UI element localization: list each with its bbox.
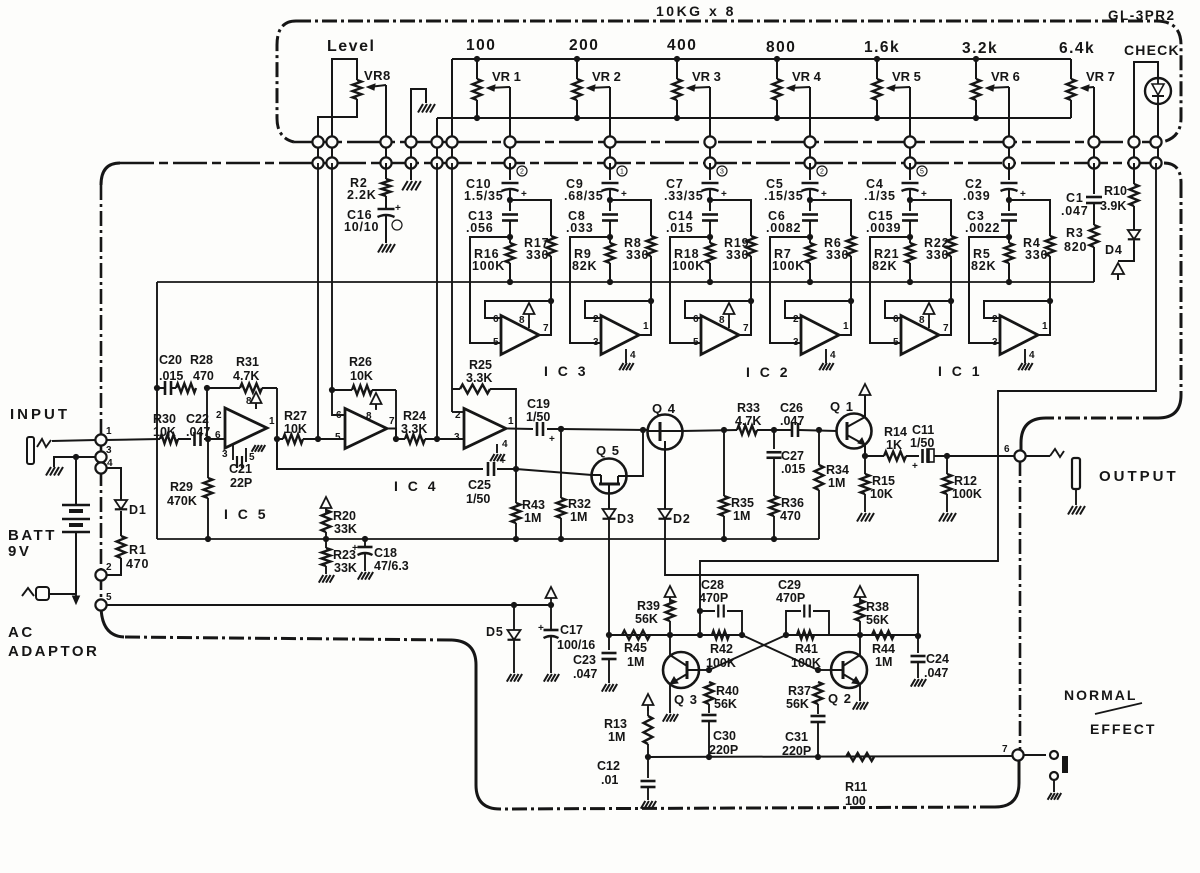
svg-text:Q 4: Q 4 [652,401,676,416]
svg-text:D2: D2 [673,512,691,526]
junction Q5 drain tap [640,427,646,433]
diode D3 [608,493,610,509]
resistor R23 [325,539,327,548]
svg-text:1: 1 [106,426,112,437]
node pin 3 [95,451,106,462]
wire op-amp output band 2 [639,301,651,335]
wire bus to band 1 column [509,163,511,180]
svg-text:820: 820 [1064,240,1087,254]
svg-text:VR 2: VR 2 [592,69,621,84]
junction R5 to rail [1006,279,1012,285]
svg-text:82K: 82K [971,259,996,273]
wire bus to band 3 column [709,163,711,180]
Q1 collector to V+ arrow [864,395,866,417]
junction film cap node band 1 [507,234,513,240]
main signal line [106,439,160,440]
svg-text:100: 100 [466,37,496,54]
wire op-amp output band 1 [539,301,551,335]
svg-text:8: 8 [519,315,525,326]
svg-text:+: + [352,543,358,554]
transistor Q4 (FET) [648,415,683,450]
svg-text:.015: .015 [781,462,805,476]
resistor R34 [818,430,820,465]
wire left input loop band 4 [770,237,810,343]
node pin 1 [95,434,106,445]
junction film cap node band 3 [707,234,713,240]
svg-text:R42: R42 [710,642,733,656]
resistor R3 [1093,203,1095,225]
svg-text:4.7K: 4.7K [735,414,761,428]
svg-text:1K: 1K [886,438,902,452]
op-amp band 2 [601,316,639,355]
wire VR6 top terminal [975,59,977,79]
junction R12 node [944,453,950,459]
svg-text:D1: D1 [129,503,147,517]
svg-text:6: 6 [215,430,221,441]
svg-text:8: 8 [719,315,725,326]
resistor R7 [809,237,811,243]
svg-text:5: 5 [693,337,699,348]
junction R16 to rail [507,279,513,285]
svg-text:1M: 1M [733,509,750,523]
junction R8 feedback node [648,298,654,304]
svg-text:330: 330 [826,248,849,262]
wire feedback box band 1 [485,301,551,318]
svg-text:R39: R39 [637,599,660,613]
svg-text:R37: R37 [788,684,811,698]
bus line 2 (lower connector rail) [120,162,1164,165]
svg-text:+: + [521,189,527,200]
wire VR1 wiper to bus [509,87,511,163]
pot top rail [452,58,1071,60]
transistor Q2 (NPN) [831,652,867,688]
resistor R10 [1133,163,1135,184]
svg-text:Q 1: Q 1 [830,399,854,414]
capacitor C1 [1086,196,1102,199]
svg-text:AC: AC [8,624,35,641]
divider line NORMAL EFFECT [1095,703,1142,714]
op-amp pin 4 ground stub [825,349,827,363]
wire C25 node to Q5 [516,469,592,475]
op-amp band 3 [701,316,739,355]
svg-text:3: 3 [720,169,724,176]
svg-text:D3: D3 [617,512,635,526]
svg-text:Q 2: Q 2 [828,691,852,706]
svg-text:R41: R41 [795,642,818,656]
junction VR1 bottom [474,115,480,121]
svg-text:R36: R36 [781,496,804,510]
resistor R2 [385,163,387,179]
wire left input loop band 5 [870,237,910,343]
svg-text:+: + [621,189,627,200]
wire VR2 top terminal [576,59,578,79]
capacitor C31 [811,715,826,718]
resistor R38 with V+ arrow [855,586,866,597]
svg-text:+: + [549,434,555,445]
svg-text:GL-3PR2: GL-3PR2 [1108,8,1176,23]
svg-text:C24: C24 [926,652,949,666]
svg-text:C20: C20 [159,353,182,367]
svg-text:C25: C25 [468,478,491,492]
svg-text:330: 330 [926,248,949,262]
supply line from node 5 [106,604,551,606]
capacitor C3 [1001,213,1017,216]
resistor R18 [709,237,711,243]
resistor R41 [797,631,814,639]
capacitor C26 [791,423,794,437]
svg-text:10K: 10K [350,369,373,383]
junction VR2 bottom [574,115,580,121]
IC5 feedback network C20 R28 R31 [156,282,158,539]
svg-text:2: 2 [793,314,799,325]
capacitor C21 compensation [232,444,234,460]
footswitch contacts [1023,754,1046,756]
svg-text:3: 3 [793,337,799,348]
wire feedback box band 2 [585,301,651,318]
svg-text:1: 1 [508,416,514,427]
border corner right to horizontal [1158,395,1181,418]
curve node5 to bottom border [101,605,124,637]
junction R38 Q2 collector [857,632,863,638]
wire VR2 bottom terminal [576,100,578,118]
svg-text:R1: R1 [129,543,147,557]
Q2 emitter ground [859,684,861,701]
svg-text:+: + [538,623,544,634]
wire bus to band 5 column [909,163,911,180]
wire feedback to input node [206,388,208,439]
wire feedback box band 3 [685,301,751,318]
svg-text:.039: .039 [963,189,991,203]
junction VR6 bottom [973,115,979,121]
wire left input loop band 3 [670,237,710,343]
junction VR2 top [574,56,580,62]
junction IC5 input [205,436,211,442]
junction R42 right [739,632,745,638]
wire bus to band 6 column [1008,163,1010,180]
svg-text:R20: R20 [333,509,356,523]
svg-text:C31: C31 [785,730,808,744]
wire VR5 top terminal [876,59,878,79]
wire branch to R6 [810,200,851,236]
wire R1 to node 2 [106,558,121,575]
border below node 7 curving left [995,760,1019,807]
svg-text:1.6k: 1.6k [864,39,900,56]
svg-text:1M: 1M [608,730,625,744]
wire left input loop band 6 [969,237,1009,343]
wire to node 6 [947,455,1015,457]
svg-text:10K: 10K [284,422,307,436]
resistor R16 [509,237,511,243]
capacitor C19 [536,422,539,436]
border from AC adaptor line [124,637,452,640]
svg-text:R28: R28 [190,353,213,367]
wire VR5 bottom terminal [876,100,878,118]
junction VR4 bottom [774,115,780,121]
svg-text:VR 7: VR 7 [1086,69,1115,84]
wire R3 to rail [1093,247,1095,282]
svg-text:33K: 33K [334,522,357,536]
svg-text:4: 4 [1029,350,1035,361]
svg-text:470: 470 [126,557,149,571]
wire left input loop band 1 [470,237,510,343]
svg-text:C26: C26 [780,401,803,415]
resistor R4 [1046,236,1055,256]
diode D5 [513,605,515,630]
ground stub below bus [410,163,412,180]
junction band 6 cap node [1006,197,1012,203]
svg-text:800: 800 [766,39,796,56]
svg-text:C18: C18 [374,546,397,560]
junction Q1 base node [816,427,822,433]
border curve down to node 6 [1021,418,1046,451]
capacitor C23 [608,635,610,650]
svg-text:.01: .01 [601,773,618,787]
junction Q3 base R40 [706,667,712,673]
svg-text:10K: 10K [870,487,893,501]
transistor Q1 (NPN) [837,414,872,449]
wire Q5 to main line [626,430,643,476]
wire VR6 bottom terminal [975,100,977,118]
wire VR3 top terminal [676,59,678,79]
wire node 3 to sleeve ground [54,457,96,467]
svg-text:3.3K: 3.3K [466,371,492,385]
capacitor C22 [178,438,191,440]
wire VR3 wiper to bus [709,87,711,163]
node pin 2 [95,569,106,580]
svg-text:.015: .015 [666,221,694,235]
AC plug symbol [36,587,49,600]
svg-text:220P: 220P [709,743,738,757]
svg-text:3: 3 [222,449,228,460]
resistor R14 [865,455,884,457]
svg-text:2.2K: 2.2K [347,188,377,202]
svg-text:3.3K: 3.3K [401,422,427,436]
junction band 5 cap node [907,197,913,203]
wire battery minus down [75,532,77,594]
svg-text:.68/35: .68/35 [564,189,604,203]
wire Q4 to R33 [682,430,737,431]
svg-text:+: + [395,203,401,214]
junction band 2 cap node [607,197,613,203]
svg-text:+: + [721,189,727,200]
svg-text:470P: 470P [699,591,728,605]
svg-text:8: 8 [366,411,372,422]
wire feedback box band 5 [885,301,951,318]
wire bus to band 4 column [809,163,811,180]
wire C16 to ground [385,216,387,243]
junction film cap node band 5 [907,234,913,240]
svg-text:1: 1 [620,169,624,176]
svg-text:C29: C29 [778,578,801,592]
svg-text:I C 5: I C 5 [224,506,269,522]
svg-text:R38: R38 [866,600,889,614]
wire VR4 wiper to bus [809,87,811,163]
svg-text:82K: 82K [872,259,897,273]
right end curve of bus2 into right board border [1164,163,1181,183]
resistor R30 [160,435,178,444]
svg-text:1M: 1M [627,655,644,669]
svg-text:.056: .056 [466,221,494,235]
Q1 emitter node [864,445,866,456]
resistor R6 [847,236,856,256]
svg-text:.033: .033 [566,221,594,235]
wire top rail drop to bus [451,59,453,163]
svg-text:6: 6 [493,314,499,325]
svg-text:7: 7 [543,323,549,334]
potentiometer VR3 [673,79,682,100]
battery arrow to node 5 [75,585,77,599]
svg-text:1.5/35: 1.5/35 [464,189,504,203]
svg-text:C27: C27 [781,449,804,463]
junction D5 [511,602,517,608]
svg-text:INPUT: INPUT [10,406,70,423]
wire op-amp output band 5 [939,301,951,335]
pot bottom rail [437,117,1071,119]
transistor Q3 (NPN) [663,652,699,688]
wire op-amp output band 6 [1038,301,1050,335]
wire branch to R17 [510,200,551,236]
junction VR3 bottom [674,115,680,121]
svg-text:5: 5 [893,337,899,348]
resistor R15 [864,456,866,474]
svg-text:4: 4 [830,350,836,361]
capacitor C30 [702,714,717,717]
wire IC5out node down to C25 line [277,439,483,469]
VR3 wiper arrow [689,87,710,88]
wire bus to band 2 column [609,163,611,180]
svg-text:1M: 1M [570,510,587,524]
potentiometer VR5 [873,79,882,100]
connector pins on bus lines [312,136,323,147]
potentiometer VR2 [573,79,582,100]
svg-text:1: 1 [843,321,849,332]
svg-text:C30: C30 [713,729,736,743]
wire LED column down to flip-flop [700,163,1156,611]
svg-text:6: 6 [693,314,699,325]
junction IC5 output [274,436,280,442]
resistor R24 [396,438,405,440]
svg-text:R15: R15 [872,474,895,488]
svg-text:22P: 22P [230,476,252,490]
svg-text:56K: 56K [866,613,889,627]
svg-text:10KG x 8: 10KG x 8 [656,3,736,19]
resistor R19 [747,236,756,256]
svg-text:C28: C28 [701,578,724,592]
svg-text:4: 4 [502,439,508,450]
junction film cap node band 2 [607,234,613,240]
svg-text:6.4k: 6.4k [1059,40,1095,57]
svg-text:2: 2 [992,314,998,325]
wire VR7 bottom terminal [1070,100,1072,118]
bottom line to node 7 [648,756,1013,757]
wire pin2 from R25 line [451,389,453,412]
svg-text:EFFECT: EFFECT [1090,721,1156,737]
capacitor C8 [602,213,618,216]
wire LED cathode down to bus [1157,104,1159,163]
svg-text:R11: R11 [845,780,867,794]
potentiometer VR4 [773,79,782,100]
capacitor C5 (electrolytic) [802,182,819,185]
wire op-amp output band 3 [739,301,751,335]
bias rail horizontal [157,538,819,540]
junction D3 column [606,632,612,638]
resistor R43 [515,469,517,503]
svg-text:.047: .047 [1061,204,1089,218]
svg-text:VR 6: VR 6 [991,69,1020,84]
svg-text:R13: R13 [604,717,627,731]
wire D4 to supply arrow [1118,241,1134,262]
main board left border with connector pins [100,185,103,605]
junction R6 feedback node [848,298,854,304]
svg-text:56K: 56K [635,612,658,626]
junction VR5 bottom [874,115,880,121]
svg-text:R24: R24 [403,409,426,423]
supply arrow V+ for D4 [1112,263,1124,274]
wire bus pin to IC4a feedback [331,163,333,390]
capacitor C28 box [697,632,703,638]
op-amp IC4b [464,409,506,449]
wire bus pin to IC5 input node [317,163,319,439]
svg-text:3: 3 [992,337,998,348]
resistor R31 [207,387,240,389]
svg-text:R31: R31 [236,355,259,369]
virtual-ground rail (long horizontal) [157,281,1094,283]
svg-text:470: 470 [780,509,801,523]
junction VR1 top [474,56,480,62]
check LED indicator [1145,78,1171,104]
svg-text:C19: C19 [527,397,550,411]
op-amp IC5 [225,408,267,448]
svg-text:ADAPTOR: ADAPTOR [8,643,99,660]
output jack symbol [1072,458,1080,489]
wire node6 to output jack [1025,455,1050,457]
svg-text:.047: .047 [780,414,804,428]
svg-text:3: 3 [593,337,599,348]
svg-text:BATT: BATT [8,527,57,544]
wire R31 to IC5 output [276,388,278,439]
wire LED anode to bus pin [1134,62,1158,163]
wire branch to R22 [910,200,951,236]
svg-text:C23: C23 [573,653,596,667]
svg-text:5: 5 [335,432,341,443]
svg-text:C21: C21 [229,462,252,476]
svg-text:7: 7 [389,416,395,427]
svg-text:3: 3 [454,432,460,443]
VR2 wiper arrow [589,87,610,88]
node pin 5 [95,599,106,610]
resistor R42 [712,631,729,639]
svg-text:R45: R45 [624,641,647,655]
capacitor C7 (electrolytic) [702,182,719,185]
capacitor C18 (electrolytic) [364,539,366,548]
wire pin2 tap [452,411,464,413]
svg-text:R26: R26 [349,355,372,369]
junction Q2 base R37 [815,667,821,673]
junction C24 node [915,633,921,639]
resistor R44 [872,631,894,639]
resistor R36 [773,458,775,496]
flip-flop rail right segment [786,634,918,636]
wire R26 to IC4a output [395,390,397,429]
capacitor C12 [647,757,649,778]
main board right border [1180,183,1183,395]
diode D4 [1133,206,1135,230]
svg-text:82K: 82K [572,259,597,273]
junction VR4 top [774,56,780,62]
wire input to node 1 [52,440,96,441]
wire VR4 bottom terminal [776,100,778,118]
capacitor C25 [487,462,490,476]
